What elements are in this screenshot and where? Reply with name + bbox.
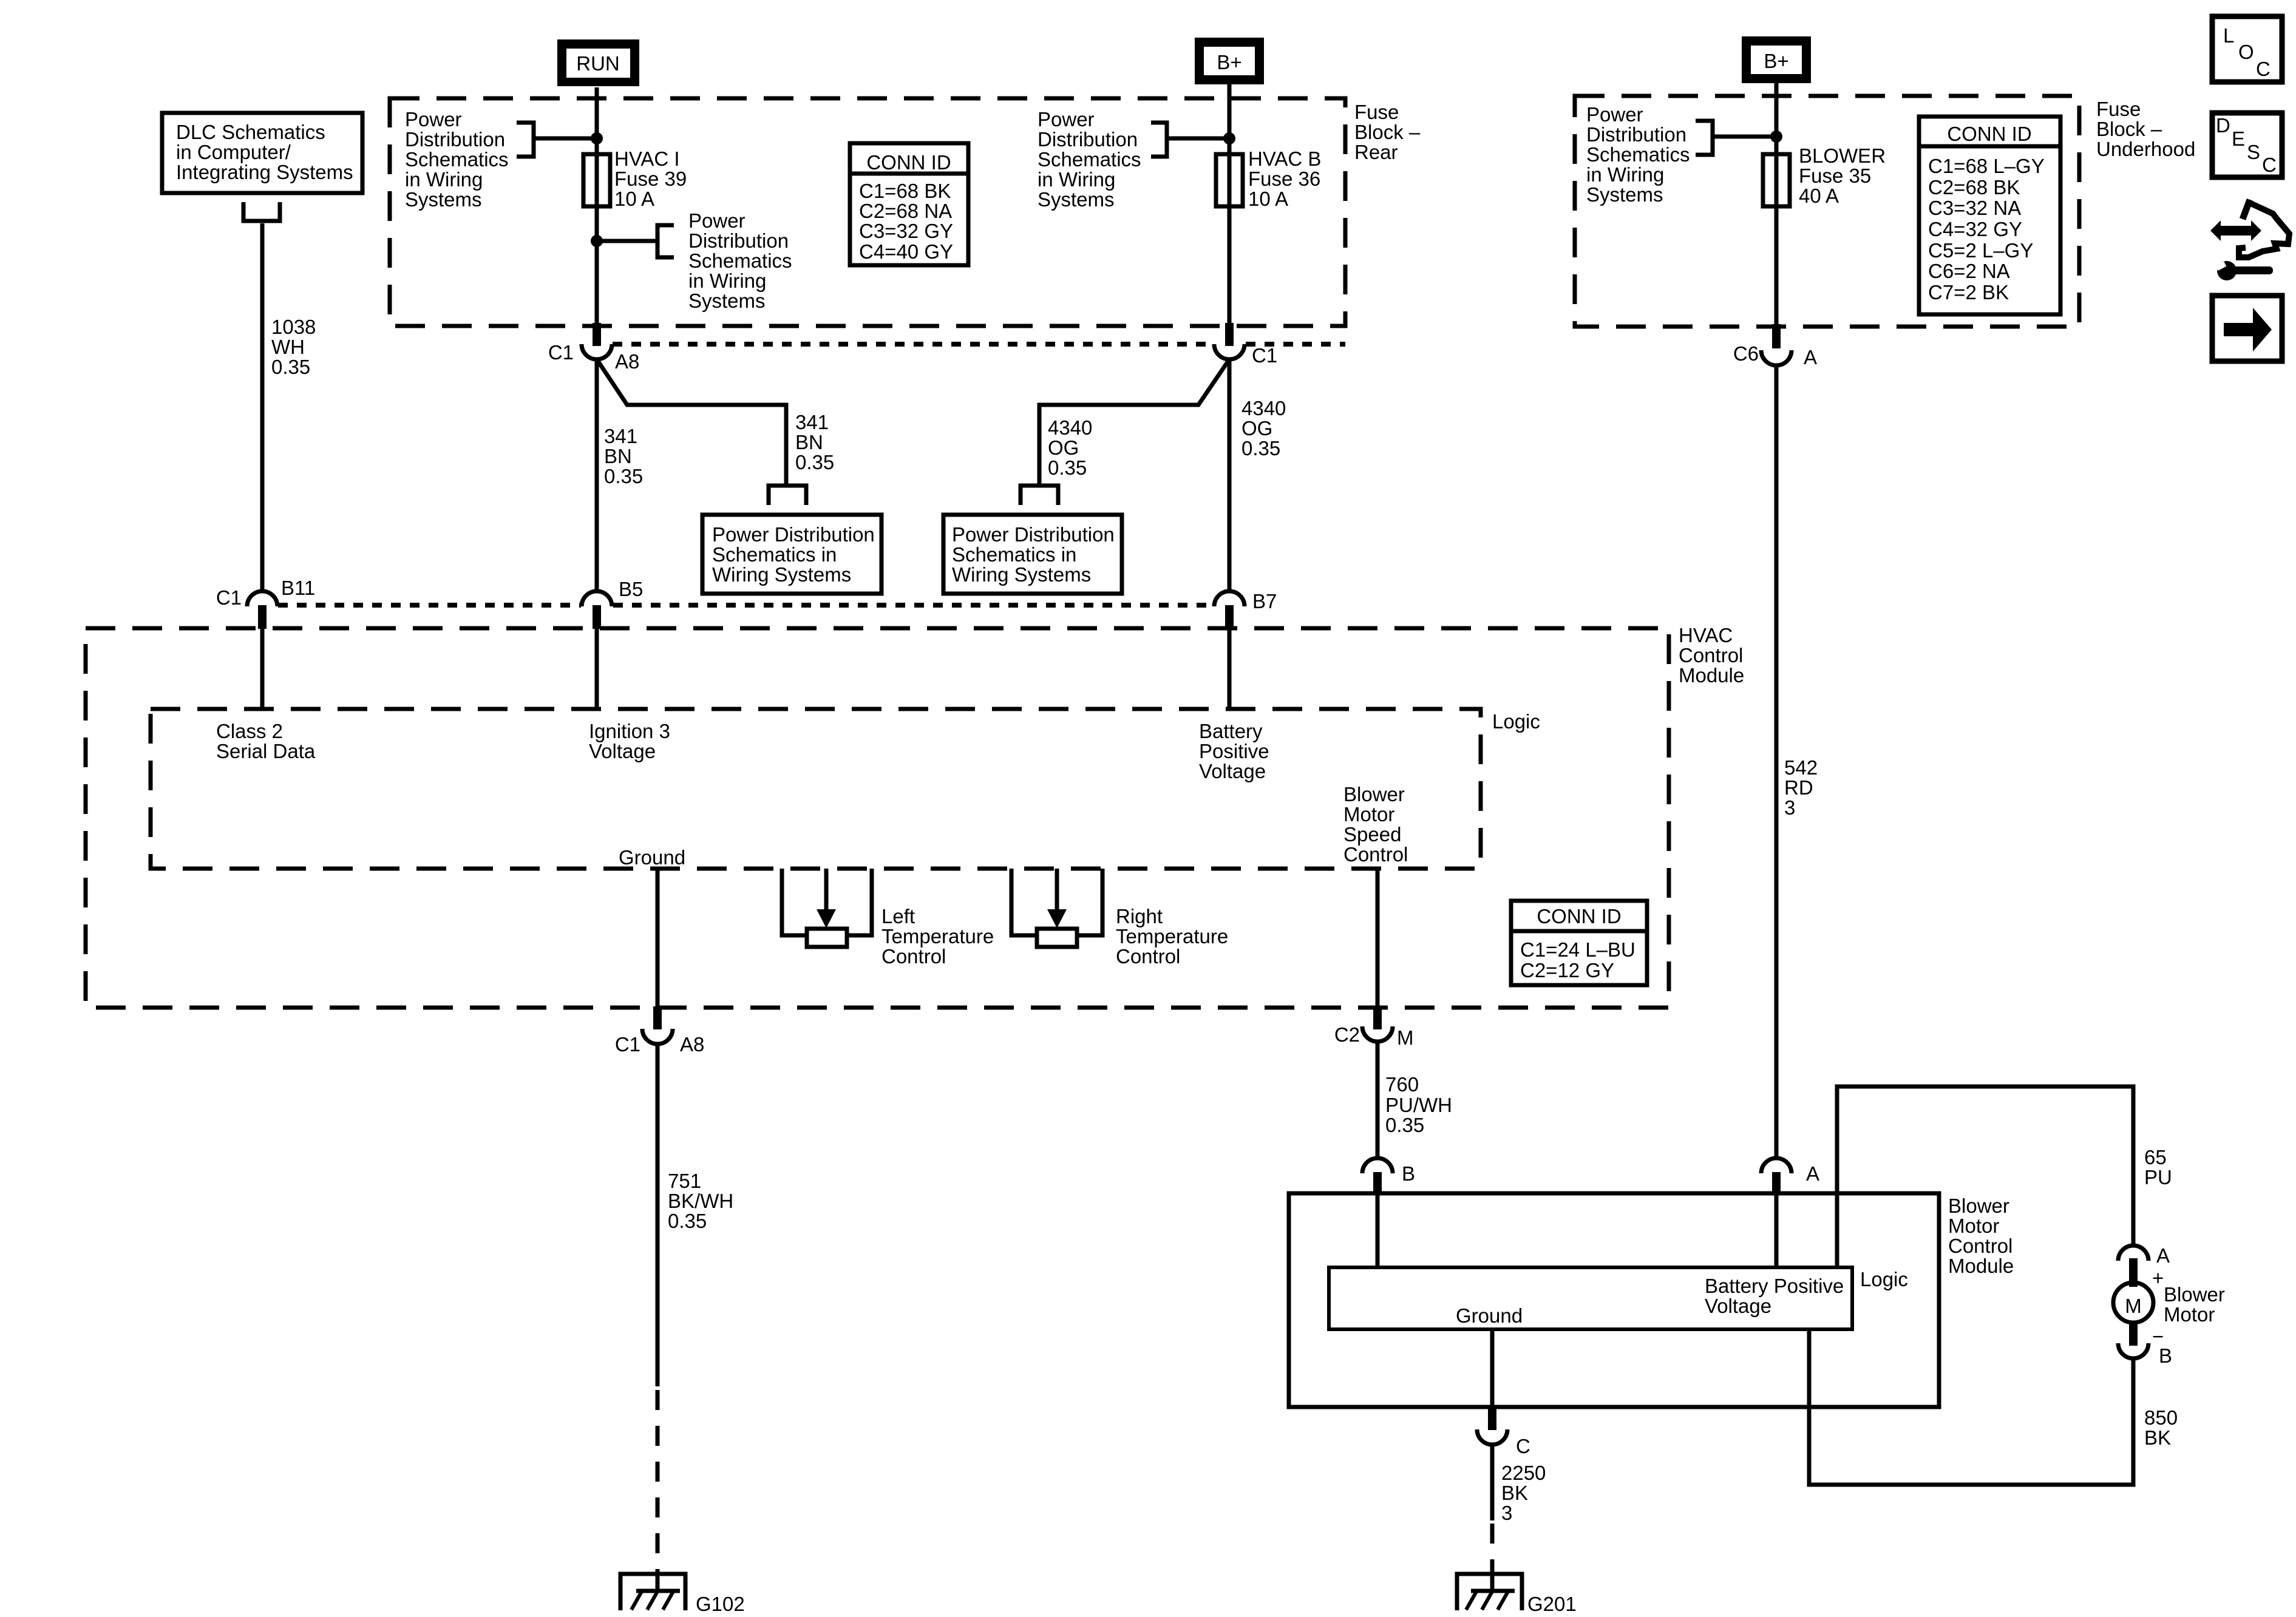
svg-text:Rear: Rear [1354,141,1398,163]
svg-text:10 A: 10 A [614,188,654,210]
svg-text:BN: BN [604,445,632,467]
svg-text:Logic: Logic [1492,710,1540,733]
svg-text:3: 3 [1784,796,1795,819]
svg-text:B7: B7 [1252,590,1277,612]
svg-text:C3=32 GY: C3=32 GY [859,220,953,242]
svg-text:Left: Left [881,905,915,927]
svg-text:B+: B+ [1764,50,1788,72]
svg-text:341: 341 [795,411,829,433]
svg-text:in Wiring: in Wiring [1038,168,1115,191]
svg-text:C: C [1516,1435,1530,1457]
svg-text:Distribution: Distribution [405,128,505,151]
svg-text:0.35: 0.35 [1241,437,1280,459]
svg-text:Block –: Block – [1354,121,1421,143]
svg-text:Battery: Battery [1199,720,1263,742]
svg-text:3: 3 [1501,1502,1512,1524]
svg-text:Fuse 39: Fuse 39 [614,168,687,190]
svg-text:Speed: Speed [1343,823,1401,846]
svg-text:Power: Power [1038,108,1095,131]
svg-text:C1: C1 [1252,344,1277,367]
svg-text:PU/WH: PU/WH [1385,1094,1452,1116]
svg-text:A: A [1804,346,1817,368]
svg-text:C1=68 BK: C1=68 BK [859,180,951,202]
svg-text:C2=68 NA: C2=68 NA [859,200,952,222]
svg-text:751: 751 [668,1170,701,1192]
svg-text:Fuse 36: Fuse 36 [1248,168,1320,190]
svg-text:Systems: Systems [1586,183,1663,206]
svg-text:WH: WH [271,336,305,358]
svg-text:0.35: 0.35 [1385,1114,1424,1136]
svg-text:C1: C1 [615,1033,640,1056]
svg-text:10 A: 10 A [1248,188,1288,210]
svg-text:Ignition 3: Ignition 3 [589,720,670,742]
svg-text:40 A: 40 A [1799,185,1839,207]
svg-text:+: + [2152,1267,2164,1289]
svg-text:542: 542 [1784,756,1818,779]
svg-text:0.35: 0.35 [271,356,310,378]
svg-text:C: C [2256,58,2271,80]
svg-text:D: D [2216,114,2230,137]
svg-text:Wiring Systems: Wiring Systems [712,563,851,586]
svg-text:Distribution: Distribution [688,229,789,252]
svg-text:760: 760 [1385,1073,1419,1096]
svg-text:A: A [1806,1162,1819,1185]
svg-text:HVAC I: HVAC I [614,147,680,170]
svg-text:B5: B5 [619,578,643,600]
svg-text:Schematics: Schematics [405,148,509,171]
svg-text:Module: Module [1679,664,1744,686]
svg-text:65: 65 [2144,1146,2167,1168]
svg-text:0.35: 0.35 [1048,456,1087,479]
svg-text:Control: Control [881,945,946,968]
svg-text:Control: Control [1116,945,1180,968]
svg-text:0.35: 0.35 [604,465,643,487]
svg-text:Ground: Ground [1456,1304,1523,1327]
svg-text:in Computer/: in Computer/ [176,141,291,163]
svg-text:BN: BN [795,431,823,453]
svg-text:A: A [2156,1244,2170,1267]
svg-text:Blower: Blower [1343,783,1405,805]
svg-text:in Wiring: in Wiring [405,168,483,191]
svg-text:C2: C2 [1334,1023,1360,1046]
svg-text:Systems: Systems [405,188,482,211]
svg-text:L: L [2223,24,2234,47]
svg-text:OG: OG [1048,436,1079,459]
svg-text:A8: A8 [680,1033,704,1056]
svg-text:HVAC B: HVAC B [1248,147,1321,170]
svg-text:Underhood: Underhood [2096,138,2195,160]
svg-text:CONN ID: CONN ID [1537,905,1621,927]
svg-text:G201: G201 [1527,1593,1577,1615]
svg-text:Ground: Ground [619,846,685,869]
svg-text:Control: Control [1343,843,1408,866]
svg-text:Schematics: Schematics [1586,143,1690,166]
svg-text:O: O [2238,41,2254,63]
svg-text:Motor: Motor [1948,1215,1999,1237]
svg-text:Positive: Positive [1199,740,1269,762]
svg-text:DLC Schematics: DLC Schematics [176,121,325,143]
svg-text:M: M [2125,1295,2142,1317]
svg-text:C4=40 GY: C4=40 GY [859,240,953,263]
svg-text:Voltage: Voltage [1199,760,1266,782]
svg-text:C1=68 L–GY: C1=68 L–GY [1928,155,2045,177]
svg-text:2250: 2250 [1501,1462,1546,1484]
svg-text:BLOWER: BLOWER [1799,144,1886,167]
svg-text:Fuse: Fuse [1354,101,1399,123]
svg-text:Power: Power [1586,103,1643,126]
svg-text:850: 850 [2144,1406,2178,1429]
svg-text:Power: Power [688,209,746,232]
svg-text:Schematics: Schematics [688,249,792,272]
svg-text:PU: PU [2144,1166,2172,1188]
svg-text:B11: B11 [281,577,315,599]
svg-text:341: 341 [604,425,637,447]
svg-text:CONN ID: CONN ID [1947,123,2031,145]
svg-text:Schematics in: Schematics in [712,543,837,566]
svg-text:Fuse 35: Fuse 35 [1799,164,1871,187]
svg-text:Distribution: Distribution [1038,128,1138,151]
svg-text:A8: A8 [615,350,639,373]
svg-text:Power: Power [405,108,462,131]
svg-text:C2=68 BK: C2=68 BK [1928,176,2020,198]
svg-text:C1=24 L–BU: C1=24 L–BU [1520,938,1635,961]
svg-text:4340: 4340 [1048,416,1092,439]
svg-text:CONN ID: CONN ID [866,151,951,174]
svg-text:HVAC: HVAC [1679,624,1733,646]
svg-text:C5=2 L–GY: C5=2 L–GY [1928,239,2033,262]
svg-text:Wiring Systems: Wiring Systems [952,563,1091,586]
svg-text:G102: G102 [696,1593,745,1615]
svg-text:Control: Control [1948,1235,2012,1257]
svg-text:B+: B+ [1217,51,1241,73]
svg-text:0.35: 0.35 [795,451,834,473]
svg-text:Battery Positive: Battery Positive [1705,1275,1844,1297]
svg-text:Blower: Blower [2164,1283,2225,1306]
svg-text:E: E [2232,127,2245,150]
svg-text:Temperature: Temperature [1116,925,1228,947]
svg-text:C2=12 GY: C2=12 GY [1520,959,1614,981]
svg-text:BK: BK [2144,1426,2171,1449]
svg-text:Voltage: Voltage [589,740,656,762]
svg-text:Class 2: Class 2 [216,720,283,742]
svg-text:Control: Control [1679,644,1743,666]
svg-text:C3=32 NA: C3=32 NA [1928,197,2021,219]
svg-text:B: B [1402,1162,1415,1185]
svg-text:0.35: 0.35 [668,1210,707,1232]
svg-text:Block –: Block – [2096,118,2162,140]
svg-text:RD: RD [1784,776,1813,799]
svg-text:Voltage: Voltage [1705,1295,1771,1317]
svg-text:C1: C1 [548,341,574,364]
svg-text:M: M [1397,1026,1414,1049]
svg-text:Motor: Motor [1343,803,1394,825]
svg-text:Schematics: Schematics [1038,148,1141,171]
svg-text:Temperature: Temperature [881,925,994,947]
svg-text:Distribution: Distribution [1586,123,1686,146]
svg-text:Fuse: Fuse [2096,98,2141,120]
svg-text:Blower: Blower [1948,1195,2009,1217]
svg-text:Right: Right [1116,905,1163,927]
svg-text:C6=2 NA: C6=2 NA [1928,260,2010,282]
svg-text:Integrating Systems: Integrating Systems [176,161,353,183]
svg-text:Power Distribution: Power Distribution [952,523,1115,546]
svg-text:Serial Data: Serial Data [216,740,316,762]
svg-text:C1: C1 [216,586,242,609]
svg-text:Systems: Systems [688,290,766,312]
svg-text:BK: BK [1501,1482,1528,1504]
svg-text:OG: OG [1241,417,1272,439]
svg-text:RUN: RUN [576,52,620,75]
svg-text:Module: Module [1948,1255,2014,1277]
svg-text:Schematics in: Schematics in [952,543,1076,566]
svg-text:Logic: Logic [1860,1268,1908,1290]
svg-text:BK/WH: BK/WH [668,1190,733,1212]
svg-text:C7=2 BK: C7=2 BK [1928,281,2009,303]
svg-text:1038: 1038 [271,316,316,338]
svg-text:4340: 4340 [1241,397,1286,419]
svg-text:C4=32 GY: C4=32 GY [1928,218,2022,240]
svg-text:Power Distribution: Power Distribution [712,523,875,546]
svg-text:in Wiring: in Wiring [1586,163,1664,186]
svg-text:Motor: Motor [2164,1303,2215,1326]
svg-text:S: S [2247,141,2260,163]
svg-text:B: B [2159,1344,2172,1367]
svg-text:C6: C6 [1733,342,1759,365]
svg-text:in Wiring: in Wiring [688,269,766,292]
svg-text:Systems: Systems [1038,188,1115,211]
svg-text:C: C [2262,154,2277,176]
